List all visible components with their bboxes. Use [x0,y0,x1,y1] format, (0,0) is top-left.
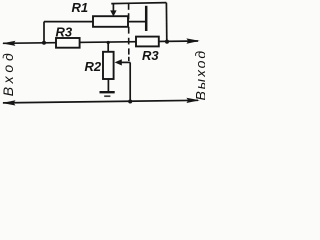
R1 wiper arrowhead [110,10,116,16]
input arrowhead bottom bus [2,100,16,105]
wire vertical from top bus down to output node [165,3,167,42]
resistor R3 right body [136,37,159,47]
wire R2 bottom lead [107,79,109,92]
svg-text:Вход: Вход [0,49,16,96]
wire R1 wiper vertical from top bus [112,3,114,12]
mechanical link dashed line (gang of R1/R2) [128,3,130,61]
output arrowhead bottom bus [186,98,199,103]
wire top bus (R1 wiper to output node) [111,3,166,4]
capacitor plate bar at end of R1 right lead [145,6,148,31]
wire R2 wiper horizontal [119,61,130,63]
resistor R2 body [103,52,114,79]
junction node input/R1 branch [42,41,46,45]
svg-text:R1: R1 [72,0,89,15]
junction node R2 top [107,41,110,44]
ground short bar [104,95,110,97]
svg-text:R3: R3 [56,24,73,39]
wire bottom bus (input common to output common) [3,100,198,103]
resistor R1 body [93,16,128,27]
R2 wiper arrowhead [115,59,122,65]
wire vertical from R1 left lead down to input node [43,22,45,43]
svg-text:R3: R3 [142,48,159,63]
wire middle bus (input to output) [3,41,198,43]
resistor R3 left body [56,38,80,48]
junction node output [165,40,169,44]
ground long bar [100,91,115,93]
input arrowhead middle bus [2,41,16,46]
wire R2 wiper vertical down to bottom bus [129,62,131,101]
svg-text:Выход: Выход [192,49,205,101]
output arrowhead middle bus [186,38,199,43]
wire R1 branch horizontal lead [44,21,146,23]
svg-text:R2: R2 [85,59,102,74]
junction node R2 wiper / bottom bus [128,100,132,104]
wire R2 top lead [107,42,109,52]
